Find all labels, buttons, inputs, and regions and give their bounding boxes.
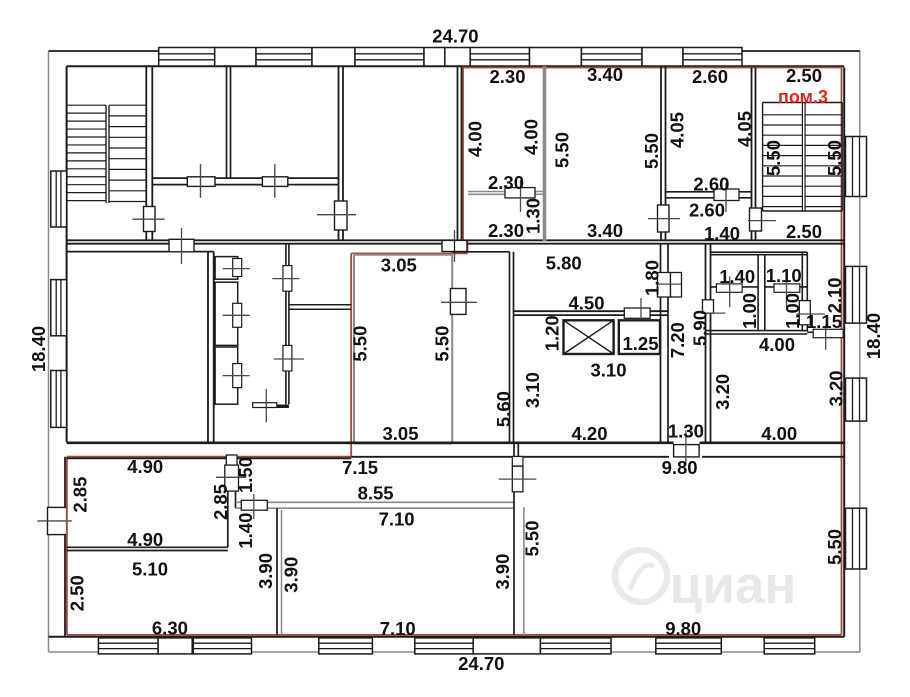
svg-text:1.15: 1.15 — [806, 311, 842, 332]
svg-text:5.50: 5.50 — [763, 140, 784, 176]
door wall x753 — [748, 208, 776, 231]
pier top-3 — [424, 48, 445, 67]
svg-text:18.40: 18.40 — [28, 326, 49, 372]
svg-text:циан: циан — [670, 556, 797, 615]
svg-text:7.15: 7.15 — [342, 457, 378, 478]
wall right inner — [843, 68, 845, 637]
svg-text:4.20: 4.20 — [571, 423, 607, 444]
door wall x709 — [701, 300, 725, 313]
door top room 1 — [187, 164, 215, 198]
svg-text:3.10: 3.10 — [590, 360, 626, 381]
svg-text:5.50: 5.50 — [350, 326, 371, 362]
pier bottom-1 — [158, 638, 192, 654]
door wall x287 upper — [272, 266, 299, 292]
elevator shaft 2 — [619, 320, 660, 354]
door y334 east — [813, 325, 843, 350]
svg-text:6.30: 6.30 — [152, 618, 188, 639]
window left-2 — [51, 280, 67, 336]
svg-text:7.20: 7.20 — [667, 322, 688, 358]
door room 1.40 — [716, 276, 742, 307]
svg-text:3.90: 3.90 — [492, 554, 513, 590]
door wall x663 — [648, 205, 680, 232]
svg-text:5.50: 5.50 — [522, 520, 543, 556]
wall y458 horizontal left — [67, 457, 351, 459]
svg-text:2.30: 2.30 — [489, 66, 525, 87]
pier bottom-2 — [473, 638, 540, 654]
wall x279 vertical — [277, 508, 282, 635]
svg-text:2.85: 2.85 — [70, 477, 91, 513]
svg-text:4.90: 4.90 — [127, 529, 163, 550]
svg-text:4.00: 4.00 — [521, 119, 542, 155]
svg-text:1.40: 1.40 — [719, 266, 755, 287]
staircase premise-3 (top-right) — [763, 103, 843, 212]
svg-text:1.80: 1.80 — [642, 260, 663, 296]
svg-text:1.20: 1.20 — [541, 315, 562, 351]
svg-text:5.50: 5.50 — [641, 133, 662, 169]
door wall x287 lower — [274, 345, 304, 371]
wall top rooms horizontal y181 — [152, 178, 338, 185]
window left-1 — [51, 171, 67, 227]
wall stub y406 — [253, 389, 289, 422]
door corridor 8.55 — [241, 494, 267, 519]
door y195 wall — [714, 183, 739, 212]
svg-text:3.20: 3.20 — [826, 370, 847, 406]
elevator shaft 1 — [564, 320, 614, 354]
wall mid-left room top y251 — [67, 251, 214, 253]
closet door 1 — [223, 259, 250, 277]
window bottom-7 — [764, 638, 815, 654]
closet door 3 — [223, 364, 250, 388]
svg-text:24.70: 24.70 — [432, 26, 478, 47]
svg-text:5.60: 5.60 — [493, 391, 514, 427]
svg-text:24.70: 24.70 — [458, 653, 504, 674]
pier top-5 — [530, 48, 582, 67]
window top-6 — [683, 48, 742, 67]
closet box 2 — [215, 282, 238, 345]
svg-text:1.00: 1.00 — [739, 293, 760, 329]
wall x210 vertical — [208, 252, 214, 443]
svg-text:1.00: 1.00 — [782, 293, 803, 329]
outer boundary line — [49, 51, 860, 652]
door wall x805 — [797, 301, 825, 325]
window right-2 — [846, 266, 867, 323]
wall x544 gray — [543, 66, 547, 241]
door stairwell — [132, 207, 164, 232]
corridor 1.80 top line — [452, 251, 509, 253]
window bottom-5 — [540, 638, 611, 654]
wall left lower inner — [64, 457, 66, 637]
svg-text:2.30: 2.30 — [488, 172, 524, 193]
wall x805 vertical — [802, 252, 807, 331]
svg-text:3.10: 3.10 — [522, 372, 543, 408]
window top-2 — [256, 48, 312, 67]
wall elevator top y313 — [513, 311, 668, 315]
window top-5 — [581, 48, 642, 67]
svg-text:4.00: 4.00 — [759, 334, 795, 355]
svg-text:5.50: 5.50 — [432, 326, 453, 362]
svg-text:4.50: 4.50 — [568, 293, 604, 314]
wall top inner — [67, 65, 845, 67]
corridor 8.55 walls — [236, 502, 515, 508]
door x514 wall — [499, 457, 537, 492]
svg-text:2.60: 2.60 — [692, 66, 728, 87]
door wall x664 — [656, 273, 682, 298]
svg-text:2.50: 2.50 — [67, 575, 88, 611]
svg-text:4.00: 4.00 — [465, 121, 486, 157]
window top-3 — [355, 48, 424, 67]
wall y457 horizontal right — [351, 456, 844, 458]
staircase main (top-left) — [67, 105, 147, 203]
svg-text:3.90: 3.90 — [255, 553, 276, 589]
svg-text:1.30: 1.30 — [668, 420, 704, 441]
wall y334 east segment — [807, 331, 844, 333]
wall y443 horizontal — [67, 441, 845, 444]
svg-text:1.10: 1.10 — [766, 265, 802, 286]
door room 3.05 — [441, 289, 477, 315]
svg-text:7.10: 7.10 — [380, 618, 416, 639]
svg-text:1.50: 1.50 — [235, 457, 256, 493]
window right-3 — [846, 378, 867, 421]
wall left inner — [66, 66, 68, 442]
window bottom-1 — [98, 638, 158, 654]
svg-text:3.40: 3.40 — [587, 64, 623, 85]
svg-text:3.05: 3.05 — [382, 423, 418, 444]
door left-wall entry — [37, 507, 72, 534]
svg-text:5.50: 5.50 — [824, 529, 845, 565]
wall y192 left section — [468, 192, 545, 195]
wall x709 vertical — [706, 244, 711, 444]
door elevator wall — [624, 298, 650, 329]
wall x663 vertical — [661, 66, 666, 241]
pier top-4 — [445, 48, 470, 67]
window bottom-2 — [193, 638, 251, 654]
door wall x340 — [317, 201, 356, 230]
closet box 1 — [215, 257, 238, 280]
svg-text:5.10: 5.10 — [132, 558, 168, 579]
svg-text:2.85: 2.85 — [210, 484, 231, 520]
pier top-2 — [312, 48, 355, 67]
wall x511 vertical — [510, 252, 514, 444]
svg-text:7.10: 7.10 — [379, 509, 415, 530]
wall main horizontal y241 — [67, 240, 845, 243]
wall x458 vertical — [458, 66, 462, 241]
wall room1 east x228 — [228, 458, 236, 547]
window bottom-4 — [415, 638, 473, 654]
watermark cian — [615, 550, 796, 615]
wall right block top y253 — [711, 252, 808, 255]
closet box 3 — [215, 347, 238, 404]
svg-text:5.50: 5.50 — [824, 140, 845, 176]
wall right block y332 — [706, 331, 808, 334]
svg-text:5.80: 5.80 — [546, 253, 582, 274]
svg-text:2.60: 2.60 — [693, 174, 729, 195]
svg-text:3.90: 3.90 — [281, 557, 302, 593]
wall stairwell east — [146, 66, 152, 241]
svg-text:пом.3: пом.3 — [778, 87, 828, 107]
closet door 2 — [223, 303, 250, 327]
wall y195 right section — [666, 192, 752, 198]
window right-4 — [846, 508, 867, 569]
wall x664 vertical lower — [661, 244, 669, 444]
svg-text:1.40: 1.40 — [704, 223, 740, 244]
svg-text:2.10: 2.10 — [824, 277, 845, 313]
svg-text:8.55: 8.55 — [358, 483, 394, 504]
wall x340 vertical — [339, 66, 344, 241]
pier top-6 — [642, 48, 683, 67]
door main-wall corridor — [442, 230, 467, 262]
svg-text:1.30: 1.30 — [523, 198, 544, 234]
window left-3 — [51, 371, 67, 428]
premise-3 label — [778, 87, 828, 107]
door room 1.10 — [774, 276, 800, 307]
svg-text:18.40: 18.40 — [863, 313, 884, 359]
svg-text:4.90: 4.90 — [127, 456, 163, 477]
wall stub y307 — [289, 305, 351, 310]
wall x761 vertical — [758, 255, 765, 331]
door room1 east — [216, 465, 246, 491]
svg-text:3.05: 3.05 — [381, 254, 417, 275]
svg-text:9.80: 9.80 — [662, 457, 698, 478]
svg-text:2.50: 2.50 — [786, 65, 822, 86]
door top room 2 — [262, 164, 287, 198]
svg-text:2.30: 2.30 — [488, 220, 524, 241]
door mid-left room — [169, 228, 194, 264]
door y192 wall — [505, 180, 535, 212]
svg-text:5.50: 5.50 — [552, 132, 573, 168]
wall top rooms divider x226 — [227, 66, 231, 178]
svg-text:2.60: 2.60 — [689, 199, 725, 220]
premise-3 red outline — [67, 68, 842, 635]
window bottom-3 — [319, 638, 373, 654]
wall x753 vertical — [752, 68, 756, 242]
wall x287 vertical — [286, 244, 289, 405]
svg-text:2.50: 2.50 — [786, 221, 822, 242]
svg-text:3.20: 3.20 — [712, 374, 733, 410]
door room1 top — [226, 455, 237, 465]
svg-text:5.90: 5.90 — [690, 310, 711, 346]
wall y287 room 1.40 — [711, 286, 759, 288]
wall x514 vertical — [514, 443, 518, 635]
wall x524 gray vertical — [523, 507, 525, 635]
pier top-1 — [215, 48, 256, 67]
room 3.05 walls — [354, 255, 452, 444]
wall bottom inner — [49, 636, 845, 638]
wall y287 room 1.10 — [765, 286, 808, 288]
svg-text:4.05: 4.05 — [666, 112, 687, 148]
window right-1 — [846, 137, 867, 197]
svg-text:9.80: 9.80 — [665, 618, 701, 639]
svg-text:1.40: 1.40 — [235, 513, 256, 549]
window top-4 — [470, 48, 529, 67]
svg-text:4.00: 4.00 — [761, 423, 797, 444]
window top-1 — [159, 48, 215, 67]
svg-text:1.25: 1.25 — [622, 333, 658, 354]
wall room1 bottom y549 — [67, 547, 228, 550]
svg-text:3.40: 3.40 — [587, 220, 623, 241]
door big room north — [674, 431, 700, 464]
svg-text:4.05: 4.05 — [734, 111, 755, 147]
window bottom-6 — [656, 638, 722, 654]
